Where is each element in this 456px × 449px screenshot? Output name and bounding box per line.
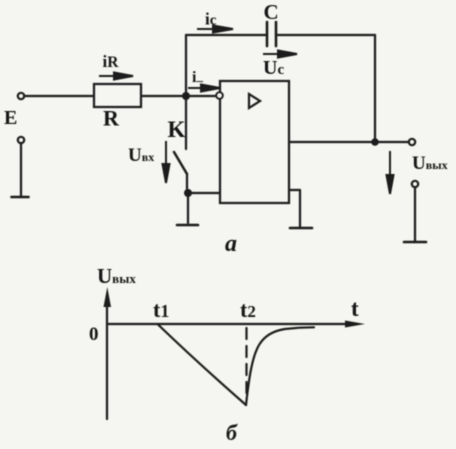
svg-text:б: б — [226, 420, 238, 445]
svg-text:K: K — [168, 117, 186, 142]
svg-text:iR: iR — [103, 52, 120, 71]
svg-text:а: а — [225, 231, 237, 257]
svg-text:i–: i– — [192, 69, 203, 88]
svg-text:E: E — [4, 107, 17, 129]
svg-text:t1: t1 — [153, 297, 169, 322]
svg-text:0: 0 — [89, 324, 99, 345]
svg-text:ic: ic — [205, 10, 217, 29]
svg-text:R: R — [103, 106, 120, 131]
svg-text:t: t — [351, 296, 359, 321]
svg-text:C: C — [264, 0, 279, 24]
